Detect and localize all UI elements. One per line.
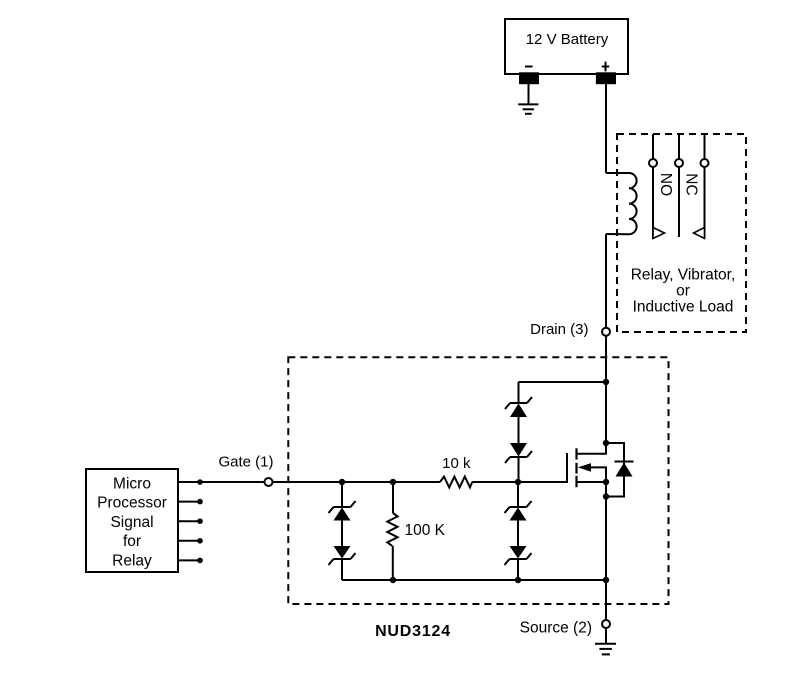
battery minus terminal label [525,66,533,68]
svg-text:Inductive Load: Inductive Load [633,299,734,316]
junction dot at gate zener branch [515,479,521,485]
wire source down to source node [605,497,607,621]
relay contact pin 1 (NO) [649,134,665,239]
junction dot at 100K branch [390,479,396,485]
svg-text:Relay, Vibrator,: Relay, Vibrator, [631,267,736,284]
wire battery plus down to coil [605,83,607,173]
MOSFET Q1 [567,443,606,487]
battery minus terminal block [520,73,538,83]
junction dot MOSFET drain [603,440,609,446]
zener diode D5 (gate-source, cathode up) [505,482,532,521]
svg-text:NUD3124: NUD3124 [375,623,451,640]
junction dot bottom rail source [603,577,609,583]
junction dot body diode bottom [603,493,609,499]
micro processor label [97,476,167,570]
battery B1 box [505,19,628,74]
top rail wire (drain to zener D1) [519,381,607,383]
zener diode D2 (drain-gate, cathode down) [505,417,532,482]
svg-text:Processor: Processor [97,495,167,512]
svg-text:NC: NC [683,173,700,195]
relay enclosure dashed box [617,134,746,332]
wire source node to ground [605,628,607,644]
zener diode D4 (gate clamp left, cathode down) [329,521,356,581]
relay coil L1 [606,173,637,234]
wire drain node down to MOSFET [605,336,607,443]
source node circle [602,620,610,628]
junction dot bottom rail 100K [390,577,396,583]
NUD3124 dashed box [288,357,668,604]
bottom rail wire [342,579,606,581]
wire micro to gate node [178,481,265,483]
wire gate node to resistor R1 [273,481,441,483]
wire coil bottom to drain node [605,234,607,328]
svg-text:for: for [123,533,141,550]
relay contact pin 3 (NC) [694,134,709,239]
battery plus terminal label [602,62,609,72]
relay contact pin 2 (common) [675,134,683,237]
svg-text:Signal: Signal [110,514,153,531]
svg-text:Relay: Relay [112,552,152,569]
resistor R2 100 K [387,482,397,580]
wire MOSFET source to bottom rail [605,482,607,497]
zener diode D3 (gate clamp left, cathode up) [329,482,356,521]
svg-text:Source (2): Source (2) [520,620,592,637]
wire resistor R1 to MOSFET gate [472,481,567,483]
ground (battery) [518,104,538,113]
svg-text:NO: NO [657,173,674,196]
battery plus terminal block [597,73,615,83]
junction dot top rail at drain line [603,379,609,385]
ground (source) [595,644,616,655]
drain node circle [602,328,610,336]
junction dot MOSFET source [603,479,609,485]
micro stub lead 3 [178,518,203,524]
svg-text:Drain (3): Drain (3) [530,321,588,338]
zener diode D1 (drain-gate, cathode up) [505,382,532,417]
svg-text:or: or [676,283,690,300]
micro stub lead 2 [178,499,203,505]
junction dot bottom rail zener [515,577,521,583]
svg-text:12 V Battery: 12 V Battery [526,31,609,48]
gate node circle [265,478,273,486]
zener diode D6 (gate-source, cathode down) [505,521,532,581]
junction dot at left zener branch [339,479,345,485]
micro stub lead 5 [178,558,203,564]
body diode of Q1 [606,443,634,497]
wire battery minus to ground [528,83,530,104]
micro stub lead 4 [178,538,203,544]
svg-text:10 k: 10 k [442,455,471,472]
resistor R1 10 k [440,477,472,488]
junction dot micro gate lead [197,479,203,485]
svg-text:Micro: Micro [113,476,151,493]
svg-text:Gate (1): Gate (1) [218,454,273,471]
svg-text:100 K: 100 K [405,522,446,539]
micro processor box [86,469,178,572]
label Relay, Vibrator, or Inductive Load [631,267,736,316]
